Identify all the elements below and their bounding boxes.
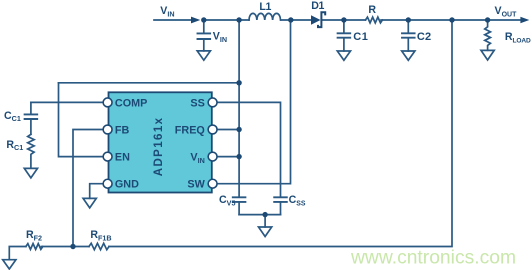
svg-text:RC1: RC1 bbox=[6, 139, 23, 152]
capacitor C1 stem bbox=[343, 20, 345, 51]
svg-text:L1: L1 bbox=[259, 1, 271, 13]
wire COMP pin to CC1 bbox=[31, 101, 104, 103]
capacitor CC1 plates bbox=[25, 114, 38, 119]
wire GND pin to ground bbox=[90, 184, 104, 199]
svg-text:RF1B: RF1B bbox=[90, 229, 111, 242]
wire EN to VIN rail horizontal bbox=[59, 82, 240, 84]
ground below GND pin bbox=[83, 198, 96, 208]
capacitor CSS plates bbox=[274, 197, 287, 202]
wire node G to output arrow bbox=[488, 19, 521, 21]
svg-text:C2: C2 bbox=[417, 31, 431, 43]
wire EN vertical to pin bbox=[59, 83, 105, 157]
svg-text:VOUT: VOUT bbox=[495, 5, 518, 18]
capacitor VIN stem bbox=[203, 20, 205, 51]
svg-text:FB: FB bbox=[115, 124, 130, 136]
capacitor VIN plates bbox=[198, 33, 211, 39]
svg-text:CC1: CC1 bbox=[4, 110, 21, 123]
svg-text:ADP161x: ADP161x bbox=[153, 117, 165, 177]
svg-text:SW: SW bbox=[187, 179, 205, 191]
node A junction dot bbox=[201, 17, 206, 22]
wire FREQ pin to vertical rail bbox=[217, 129, 239, 131]
resistor RF1B zigzag bbox=[89, 243, 109, 249]
junction dot caps ground bbox=[262, 212, 267, 217]
ground below capacitor C2 bbox=[402, 51, 415, 60]
svg-text:SS: SS bbox=[190, 97, 204, 109]
svg-text:R: R bbox=[368, 4, 376, 16]
inductor L1 bbox=[249, 13, 281, 20]
arrow output VOUT bbox=[520, 17, 529, 24]
wire node C to diode D1 bbox=[281, 19, 311, 21]
pin SS circle bbox=[208, 98, 217, 107]
svg-text:VIN: VIN bbox=[213, 31, 227, 44]
capacitor CV5 bottom stem bbox=[238, 202, 240, 215]
svg-text:RLOAD: RLOAD bbox=[505, 31, 531, 44]
pin GND circle bbox=[103, 179, 112, 188]
ground bottom left bbox=[3, 260, 16, 269]
wire bottom rail left to ground bbox=[9, 247, 26, 260]
resistor RF2 zigzag bbox=[26, 244, 43, 250]
svg-text:GND: GND bbox=[115, 179, 139, 191]
node E junction dot bbox=[406, 17, 411, 22]
capacitor C2 plates bbox=[402, 33, 415, 37]
diode D1 schottky cathode bar bbox=[318, 12, 325, 27]
wire SW pin to switch node bbox=[217, 20, 291, 184]
capacitor CC1 stem bbox=[30, 102, 32, 134]
wire SS pin to CSS bbox=[217, 102, 281, 197]
resistor RLOAD zigzag bbox=[485, 20, 491, 50]
ground below CV5 CSS bbox=[259, 227, 272, 237]
capacitor CSS bottom stem bbox=[280, 202, 282, 215]
wire joining CV5 and CSS bottoms bbox=[239, 214, 280, 216]
wire diode D1 to node D bbox=[321, 19, 365, 21]
svg-text:FREQ: FREQ bbox=[175, 124, 205, 136]
ground below resistor RC1 bbox=[24, 168, 37, 178]
ground below capacitor VIN bbox=[197, 51, 210, 60]
arrow input VIN bbox=[191, 17, 200, 24]
junction dot EN rail bbox=[236, 80, 241, 85]
svg-text:COMP: COMP bbox=[115, 97, 147, 109]
capacitor CV5 plates bbox=[233, 197, 246, 202]
svg-text:D1: D1 bbox=[311, 0, 324, 12]
wire top rail input segment bbox=[154, 19, 192, 21]
wire bottom rail to right vertical bbox=[109, 20, 452, 247]
diode D1 triangle bbox=[311, 15, 321, 25]
pin EN circle bbox=[103, 152, 112, 161]
wire resistor R to node E bbox=[381, 19, 408, 21]
svg-text:www.cntronics.com: www.cntronics.com bbox=[350, 248, 516, 269]
wire RF2 to RF1B bbox=[41, 246, 89, 248]
wire ground stem below caps bbox=[264, 215, 266, 227]
capacitor C1 plates bbox=[338, 33, 351, 37]
junction dot VIN pin rail bbox=[236, 154, 241, 159]
pin VIN circle bbox=[208, 152, 217, 161]
pin SW circle bbox=[208, 179, 217, 188]
svg-text:VIN: VIN bbox=[160, 5, 174, 18]
capacitor C2 stem bbox=[407, 20, 409, 51]
node C junction dot bbox=[288, 17, 293, 22]
wire FB pin down to feedback node bbox=[73, 130, 104, 247]
junction dot feedback node bbox=[70, 244, 75, 249]
node B junction dot bbox=[236, 17, 241, 22]
wire VIN pin to vertical rail bbox=[217, 156, 239, 158]
junction dot FREQ rail bbox=[236, 127, 241, 132]
svg-text:CSS: CSS bbox=[289, 194, 306, 207]
node G junction dot bbox=[485, 17, 490, 22]
IC body ADP161x bbox=[109, 92, 212, 192]
ground below resistor RLOAD bbox=[481, 50, 494, 60]
svg-text:CV5: CV5 bbox=[219, 194, 235, 207]
wire node A to node B bbox=[204, 19, 249, 21]
pin COMP circle bbox=[103, 98, 112, 107]
resistor RC1 zigzag bbox=[28, 134, 34, 168]
pin FB circle bbox=[103, 125, 112, 134]
pin FREQ circle bbox=[208, 125, 217, 134]
svg-text:EN: EN bbox=[115, 152, 130, 164]
node D junction dot bbox=[341, 17, 346, 22]
svg-text:RF2: RF2 bbox=[26, 229, 42, 242]
resistor R zigzag bbox=[366, 17, 383, 23]
wire node E to node G bbox=[408, 19, 487, 21]
node F junction dot bbox=[449, 17, 454, 22]
ground below capacitor C1 bbox=[337, 51, 350, 60]
svg-text:C1: C1 bbox=[353, 31, 368, 43]
wire node B down vertical rail to CV5 bbox=[238, 20, 240, 197]
